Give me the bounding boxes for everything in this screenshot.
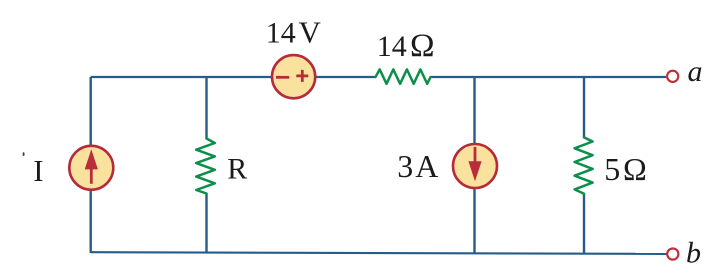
wire R branch lower	[205, 194, 207, 254]
svg-text:V: V	[299, 14, 322, 49]
wire 3A branch	[473, 77, 475, 254]
svg-text:3: 3	[397, 148, 413, 184]
label 5 ohm value	[604, 151, 646, 187]
resistor 14 ohm	[376, 69, 431, 83]
current source 3A	[453, 144, 497, 188]
wire top-left segment (node between I source and 14V source)	[91, 76, 376, 78]
wire 5 ohm branch lower	[583, 194, 585, 255]
svg-text:b: b	[686, 236, 701, 269]
terminal a	[667, 71, 678, 82]
wire R branch upper	[205, 77, 207, 139]
resistor R	[196, 139, 215, 194]
wire bottom rail	[91, 252, 667, 254]
svg-text:5: 5	[604, 151, 620, 187]
svg-text:14: 14	[377, 30, 407, 63]
terminal b	[667, 248, 678, 259]
svg-text:14: 14	[266, 16, 296, 49]
svg-text:R: R	[227, 153, 247, 186]
svg-text:A: A	[415, 148, 438, 184]
stray ink speck	[23, 152, 25, 156]
wire top-right segment (from 14 ohm resistor to terminal a)	[431, 76, 667, 78]
voltage source 14V	[272, 55, 315, 98]
label 14 ohm value	[377, 28, 435, 64]
label 3 A value	[397, 148, 438, 184]
resistor 5 ohm	[575, 137, 593, 193]
svg-text:Ω: Ω	[410, 28, 435, 64]
label 14 V value	[266, 14, 322, 49]
svg-text:I: I	[33, 153, 43, 188]
wire left branch (I source)	[89, 77, 91, 253]
current source I	[69, 146, 113, 190]
svg-text:Ω: Ω	[623, 151, 647, 187]
svg-text:a: a	[688, 55, 703, 88]
wire 5 ohm branch upper	[583, 77, 585, 137]
